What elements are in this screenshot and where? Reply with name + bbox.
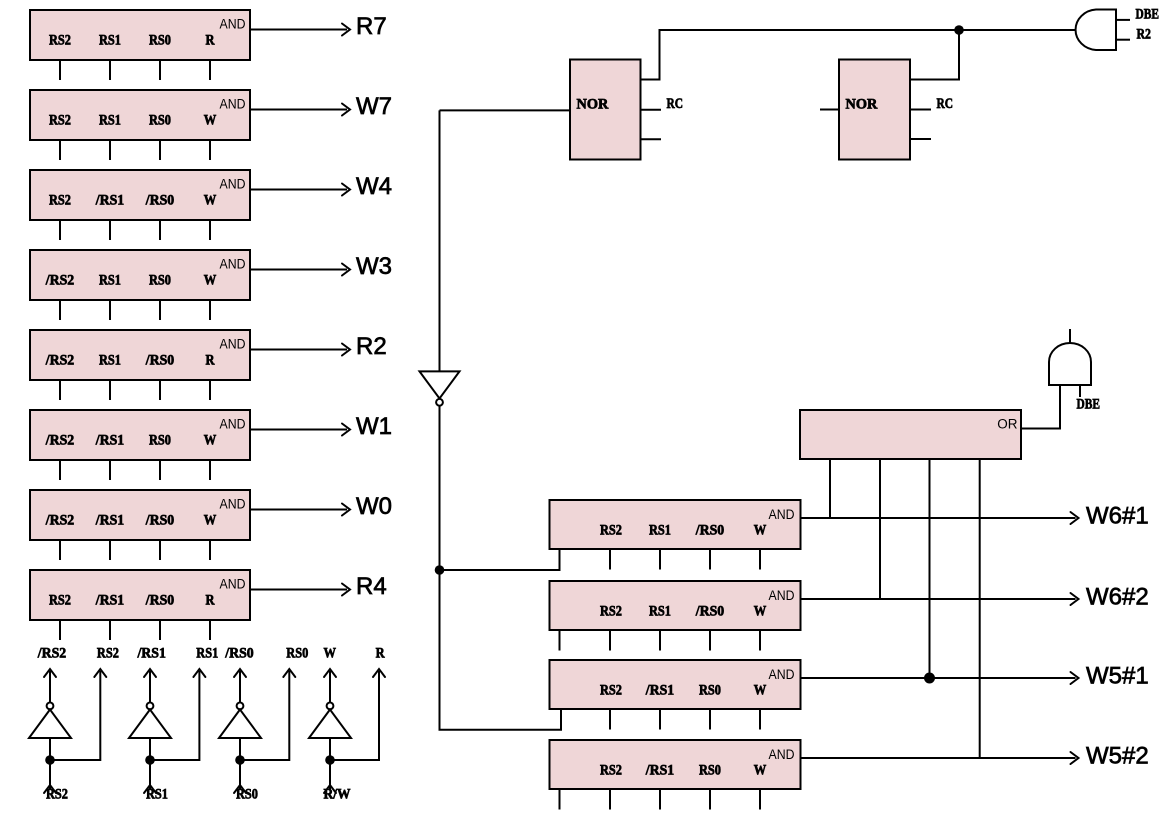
svg-text:/RS2: /RS2 [45,513,74,529]
svg-text:RS2: RS2 [49,193,71,209]
wire: G10 output to W6#2 [801,593,1079,605]
svg-text:DBE: DBE [1077,397,1101,413]
svg-text:/RS0: /RS0 [145,593,174,609]
AND gate G7 (W0) [30,490,250,540]
svg-text:RS1: RS1 [99,273,121,289]
svg-text:NOR: NOR [846,97,878,113]
svg-text:R: R [206,33,216,49]
G12 input pins [560,789,761,810]
inverter N1 triangle [29,710,71,739]
inverter N2 bubble [147,703,154,710]
wire: inverter N1 output (arrow up) [44,669,56,703]
svg-text:RS1: RS1 [649,604,671,620]
wire: U1 top output to top net [641,30,1076,80]
wire: U4 input pin2 from W6#2 [879,459,881,599]
wire: U1 left input [440,109,571,111]
AND gate G9 (W6#1) [550,500,801,549]
svg-text:/RS1: /RS1 [136,646,165,662]
wire: N5 output down [439,406,441,570]
svg-text:RS0: RS0 [149,273,171,289]
svg-text:RS1: RS1 [99,353,121,369]
svg-text:RS0: RS0 [286,646,308,662]
svg-text:RS1: RS1 [99,33,121,49]
G1 input pins [60,60,210,80]
svg-text:AND: AND [769,667,795,682]
wire: G6 output to W1 [250,424,350,436]
wire: RS0 input to inverter N3 [239,738,241,760]
svg-text:RS2: RS2 [600,604,622,620]
wire: R/W branch (arrow up) [330,669,385,760]
svg-text:W6#2: W6#2 [1086,584,1149,611]
wire: G5 output to R2 [250,344,350,356]
AND gate U3 (mirrored, inputs DBE,R2) [1076,10,1116,51]
G4 input pins [60,300,210,320]
wire: G12 output to W5#2 [801,752,1079,764]
svg-text:/RS0: /RS0 [145,353,174,369]
svg-text:RS0: RS0 [149,33,171,49]
svg-text:W5#2: W5#2 [1086,743,1149,770]
svg-text:R: R [206,353,216,369]
svg-text:/RS1: /RS1 [645,683,674,699]
svg-text:NOR: NOR [577,97,609,113]
svg-text:W7: W7 [356,93,392,120]
junction dot RS1 [145,755,155,765]
inverter N3 triangle [219,710,261,739]
wire: RS2 input tail [44,760,56,793]
wire: RS2 branch (arrow up) [50,669,106,760]
wire: G3 output to W4 [250,184,350,196]
wire: RS1 branch (arrow up) [150,669,205,760]
svg-text:RS0: RS0 [699,683,721,699]
inverter N4 bubble [327,703,334,710]
inverter N5 bubble [436,399,443,406]
G9 input pins [610,549,760,570]
wire: U4 input pin1 from W6#1 [829,459,831,518]
svg-text:RS2: RS2 [49,113,71,129]
svg-text:RS2: RS2 [600,683,622,699]
svg-text:/RS2: /RS2 [45,433,74,449]
svg-text:/RS0: /RS0 [224,646,253,662]
svg-text:RS0: RS0 [236,787,258,803]
wire: G7 output to W0 [250,504,350,516]
svg-text:W1: W1 [356,413,392,440]
svg-text:RS1: RS1 [649,523,671,539]
wire: N5 net down to G11 pin1 [440,570,562,730]
inverter N4 triangle [309,710,351,739]
wire: N5 net to G9 pin1 [440,549,560,570]
wire: U4 input pin4 from W5#2 [979,459,981,758]
junction dot RS2 [45,755,55,765]
AND gate G2 (W7) [30,90,250,140]
AND gate G11 (W5#1) [550,660,801,709]
svg-text:AND: AND [220,417,246,432]
svg-text:R7: R7 [356,13,387,40]
svg-text:RS2: RS2 [97,646,119,662]
svg-text:AND: AND [220,337,246,352]
AND gate U5 (pointing up) [1049,343,1091,385]
wire: G11 output to W5#1 [801,672,1079,684]
svg-text:W5#1: W5#1 [1086,663,1149,690]
AND gate G12 (W5#2) [550,740,801,789]
wire: RS1 input tail [144,760,156,793]
inverter N5 triangle (pointing down) [420,371,460,398]
G10 input pins [560,630,761,651]
svg-text:/RS0: /RS0 [695,604,724,620]
U1 bottom pin [641,138,662,140]
AND gate G6 (W1) [30,410,250,460]
U1 pin RC [641,109,662,111]
junction dot R/W [325,755,335,765]
svg-text:/RS2: /RS2 [45,273,74,289]
wire: R/W input to inverter N4 [329,738,331,760]
svg-text:W: W [204,113,217,129]
wire: G9 output to W6#1 [801,512,1079,524]
wire: U4 input pin3 from W5#1 [929,459,931,678]
inverter N3 bubble [237,703,244,710]
svg-text:RS2: RS2 [46,787,68,803]
wire: U2 top output to top net [910,30,959,80]
junction dot RS0 [235,755,245,765]
G8 input pins [60,620,210,640]
svg-text:RS2: RS2 [49,593,71,609]
U2 bottom pin [910,138,931,140]
wire: inverter N4 output (arrow up) [324,669,336,703]
NOR gate U1 [570,60,641,160]
AND gate G4 (W3) [30,250,250,300]
svg-text:W3: W3 [356,253,392,280]
svg-text:R2: R2 [1137,27,1152,43]
svg-text:/RS2: /RS2 [45,353,74,369]
svg-text:/RS1: /RS1 [95,513,124,529]
svg-text:R4: R4 [356,573,387,600]
svg-text:/RS1: /RS1 [95,433,124,449]
wire: inverter N3 output (arrow up) [234,669,246,703]
svg-text:/RS0: /RS0 [695,523,724,539]
inverter N2 triangle [129,710,171,739]
svg-text:RC: RC [937,96,954,112]
junction dot W5#1 [924,673,935,684]
svg-text:W: W [204,193,217,209]
svg-text:W: W [754,523,767,539]
U5 input pin DBE [1079,385,1081,397]
junction dot N5 net [435,565,445,575]
svg-text:/RS1: /RS1 [95,193,124,209]
svg-text:AND: AND [769,507,795,522]
svg-text:W: W [204,273,217,289]
U2 pin RC [910,109,931,111]
wire: RS0 input tail [234,760,246,793]
svg-text:R/W: R/W [324,787,352,803]
G3 input pins [60,220,210,240]
svg-text:W: W [754,683,767,699]
U5 output stub [1069,329,1071,343]
U3 input pin R2 [1116,39,1130,41]
svg-text:AND: AND [220,97,246,112]
G7 input pins [60,540,210,560]
svg-text:/RS0: /RS0 [145,193,174,209]
wire: G8 output to R4 [250,584,350,596]
wire: RS2 input to inverter N1 [49,738,51,760]
G6 input pins [60,460,210,480]
OR gate U4 [800,410,1021,459]
U3 input pin DBE [1116,19,1130,21]
svg-text:W6#1: W6#1 [1086,503,1149,530]
wire: RS1 input to inverter N2 [149,738,151,760]
svg-text:R: R [206,593,216,609]
wire: G1 output to R7 [250,24,350,36]
svg-text:W: W [204,433,217,449]
svg-text:AND: AND [769,747,795,762]
AND gate G8 (R4) [30,570,250,620]
svg-text:RS0: RS0 [699,763,721,779]
svg-text:R: R [376,646,386,662]
AND gate G10 (W6#2) [550,581,801,630]
svg-text:RS1: RS1 [196,646,218,662]
svg-text:W0: W0 [356,493,392,520]
G11 input pins [610,709,760,730]
svg-text:/RS1: /RS1 [95,593,124,609]
svg-text:AND: AND [220,577,246,592]
G2 input pins [60,140,210,160]
svg-text:/RS0: /RS0 [145,513,174,529]
svg-text:RC: RC [667,96,684,112]
junction dot top net [954,25,964,35]
wire: G2 output to W7 [250,104,350,116]
svg-text:W4: W4 [356,173,392,200]
wire: top net down to inverter N5 [439,110,441,371]
AND gate G1 (R7) [30,10,250,60]
svg-text:DBE: DBE [1136,7,1160,23]
svg-text:W: W [323,646,336,662]
wire: R/W input tail [324,760,336,793]
svg-text:RS2: RS2 [49,33,71,49]
svg-text:RS0: RS0 [149,433,171,449]
wire: inverter N2 output (arrow up) [144,669,156,703]
AND gate G5 (R2) [30,330,250,380]
svg-text:OR: OR [997,416,1018,431]
G5 input pins [60,380,210,400]
svg-text:/RS1: /RS1 [645,763,674,779]
wire: G4 output to W3 [250,264,350,276]
AND gate G3 (W4) [30,170,250,220]
inverter N1 bubble [47,703,54,710]
svg-text:/RS2: /RS2 [37,646,66,662]
svg-text:AND: AND [220,177,246,192]
svg-text:W: W [754,604,767,620]
svg-text:AND: AND [220,497,246,512]
svg-text:R2: R2 [356,333,387,360]
svg-text:RS1: RS1 [99,113,121,129]
svg-text:RS2: RS2 [600,523,622,539]
svg-text:RS1: RS1 [146,787,168,803]
svg-text:AND: AND [220,17,246,32]
svg-text:RS0: RS0 [149,113,171,129]
svg-text:W: W [204,513,217,529]
svg-text:W: W [754,763,767,779]
svg-text:AND: AND [220,257,246,272]
svg-text:RS2: RS2 [600,763,622,779]
wire: RS0 branch (arrow up) [240,669,295,760]
wire: U4 output to U5 input [1021,385,1060,429]
wire: U2 left input stub [820,109,839,111]
svg-text:AND: AND [769,588,795,603]
NOR gate U2 [839,60,910,160]
